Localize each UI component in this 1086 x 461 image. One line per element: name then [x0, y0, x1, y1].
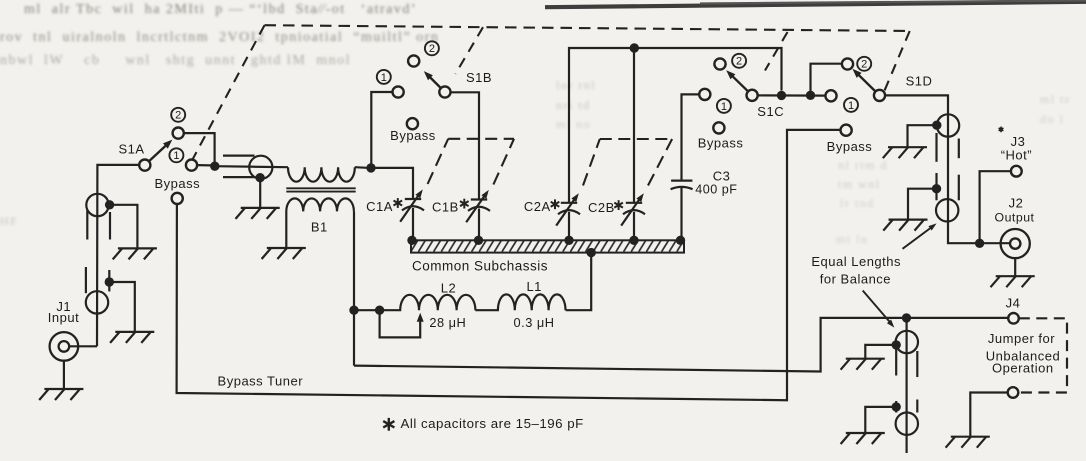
switch S1B pole — [439, 86, 450, 97]
terminal J4 — [1008, 313, 1019, 324]
asterisk at C2A — [551, 199, 560, 209]
switch S1B wiper arrow — [424, 71, 442, 88]
label Bypass (S1B) — [390, 128, 436, 143]
bypass contact of S1B — [407, 118, 418, 129]
pin label 2 (S1C) — [732, 54, 746, 68]
bypass contact of S1D — [841, 125, 852, 136]
pin label 2 (S1B) — [425, 41, 439, 55]
pin label 1 (S1C) — [717, 99, 731, 113]
variable capacitor C2B — [621, 193, 645, 225]
pin label 2 (S1D) — [857, 57, 871, 71]
wire J1 center to coax riser — [69, 345, 97, 347]
label S1C — [757, 104, 784, 119]
junction C3 at subchassis — [676, 236, 685, 245]
svg-text:C1B: C1B — [432, 199, 459, 214]
svg-text:Bypass: Bypass — [154, 176, 200, 191]
contact 2 of S1A — [173, 128, 184, 139]
junction S1D contact2 drop — [806, 91, 815, 100]
svg-text:B1: B1 — [311, 220, 328, 235]
switch S1A pole — [139, 160, 150, 171]
contact 2 of S1D — [842, 58, 853, 69]
label L2 28uH — [429, 280, 466, 330]
shaft link to S1D (dashed) — [884, 31, 910, 93]
label Equal Lengths for Balance — [811, 254, 901, 286]
winding legs of lower ring — [86, 267, 109, 293]
svg-text:2: 2 — [429, 43, 435, 55]
svg-text:Jumper for: Jumper for — [988, 331, 1055, 346]
ground balance lower — [841, 433, 885, 444]
contact 1 of S1A — [186, 160, 197, 171]
label C2A — [524, 199, 551, 214]
ground for upper shield tap — [113, 248, 157, 259]
svg-text:400 pF: 400 pF — [695, 183, 737, 197]
switch S1D pole — [874, 90, 885, 101]
shield junction (dot) balance upper — [892, 340, 901, 349]
contact 1 of S1C — [699, 89, 710, 100]
winding legs upper ring (output) — [937, 133, 959, 200]
label J3 Hot — [1001, 134, 1032, 163]
svg-text:2: 2 — [736, 56, 742, 68]
ground upper output shield — [883, 147, 927, 158]
wire J4 lower terminal to ground — [970, 393, 1007, 437]
wire shield to ground (balance upper) — [865, 345, 896, 359]
svg-text:1: 1 — [721, 101, 727, 113]
ground at bead shield — [236, 208, 280, 219]
svg-text:S1B: S1B — [466, 70, 492, 85]
balun transformer B1 primary winding — [288, 167, 355, 182]
gang linkage C1A-C1B (dashed) — [428, 139, 514, 185]
asterisk at C2B — [614, 200, 623, 210]
contact 2 of S1C — [714, 58, 725, 69]
wire shield to ground (upper output) — [908, 125, 937, 147]
ferrite core on input coax (lower ring) — [86, 291, 108, 313]
junction L2 tap — [375, 306, 384, 315]
shaft link to S1A (dashed) — [193, 25, 265, 159]
switch S1D wiper arrow — [852, 69, 876, 92]
wire J3 riser — [980, 171, 1011, 243]
shield junction (dot) lower — [932, 184, 941, 193]
svg-text:“Hot”: “Hot” — [1001, 148, 1032, 163]
pointer arrow to output balun — [903, 223, 937, 248]
svg-text:C1A: C1A — [366, 199, 393, 214]
switch S1A wiper arrow — [148, 140, 172, 162]
label Bypass (S1A) — [154, 176, 200, 191]
wire B1 primary to node A — [355, 166, 367, 169]
svg-text:Bypass: Bypass — [698, 136, 744, 151]
svg-text:C2B: C2B — [588, 200, 615, 215]
svg-text:2: 2 — [175, 110, 181, 122]
svg-text:Bypass Tuner: Bypass Tuner — [218, 373, 304, 388]
svg-text:S1A: S1A — [118, 142, 144, 157]
label Bypass (S1C) — [698, 136, 744, 151]
shield junction (dot) balance lower — [892, 402, 901, 411]
wire shield tap to ground (upper) — [110, 205, 138, 249]
label J1 Input — [48, 299, 79, 325]
label C1B — [432, 199, 459, 214]
svg-text:Operation: Operation — [992, 361, 1054, 376]
wire shield to ground (balance lower) — [865, 407, 896, 433]
note all capacitors value — [383, 416, 584, 431]
svg-text:2: 2 — [861, 59, 867, 71]
junction C2 bank at S1C-S1D wire — [777, 91, 786, 100]
wire coax riser J1 to S1A — [97, 165, 140, 346]
winding legs of upper ring — [87, 210, 110, 240]
ferrite core balance balun upper ring — [896, 331, 918, 353]
junction C1A at subchassis — [407, 236, 416, 245]
variable capacitor C1B — [466, 190, 490, 222]
ground balance upper — [841, 359, 885, 370]
wire C2B to subchassis — [633, 212, 635, 241]
svg-text:1: 1 — [848, 100, 854, 112]
variable capacitor C2A — [556, 193, 580, 225]
svg-text:28 μH: 28 μH — [429, 315, 466, 330]
contact 1 of S1B — [393, 86, 404, 97]
svg-text:Common Subchassis: Common Subchassis — [412, 258, 548, 273]
junction J3 riser at J2 wire — [975, 239, 984, 248]
label Bypass (S1D) — [827, 139, 873, 154]
ferrite bead on line to B1 — [249, 156, 272, 179]
capacitor C3 — [671, 181, 693, 190]
ferrite core on input coax (upper ring) — [86, 194, 108, 216]
junction C2A at subchassis — [564, 236, 573, 245]
label Jumper for Unbalanced Operation — [986, 331, 1060, 376]
terminal J4 lower — [1008, 387, 1019, 398]
pin label 2 (S1A) — [171, 108, 185, 122]
inductor L2 — [354, 295, 475, 310]
svg-text:C2A: C2A — [524, 199, 551, 214]
wire shield to ground (lower output) — [908, 189, 937, 220]
wire C1B to subchassis — [478, 209, 480, 241]
ground at J4 jumper — [946, 437, 990, 448]
asterisk at C1A — [394, 198, 403, 208]
svg-text:Output: Output — [995, 211, 1035, 225]
wire C2A to subchassis — [568, 212, 570, 241]
junction L1 at subchassis bottom — [587, 248, 596, 257]
junction C2B top — [630, 43, 639, 52]
label J2 Output — [995, 196, 1035, 225]
junction balanced balun at J4 wire — [902, 313, 911, 322]
ground lower output shield — [883, 220, 927, 231]
svg-text:C3: C3 — [713, 169, 731, 184]
svg-text:Equal Lengths: Equal Lengths — [811, 254, 901, 269]
shield tap junction (dot) at upper ring — [105, 200, 114, 209]
asterisk at C1B — [460, 199, 469, 209]
label L1 0.3uH — [514, 279, 555, 330]
shield tap junction (dot) at lower ring — [105, 277, 114, 286]
gang linkage C2A-C2B (dashed) — [583, 139, 672, 186]
contact 1 of S1D — [825, 90, 836, 101]
B1 core — [286, 188, 355, 191]
wire S1C contact 1 to C3 — [682, 94, 700, 180]
ferrite core output balun lower ring — [936, 199, 958, 221]
pin label 1 (S1B) — [377, 70, 391, 84]
svg-text:All capacitors are 15–196 pF: All capacitors are 15–196 pF — [401, 416, 584, 431]
svg-text:0.3 μH: 0.3 μH — [514, 315, 555, 330]
label J4 — [1006, 296, 1021, 311]
ferrite core output balun upper ring — [937, 114, 959, 136]
label C2B — [588, 200, 615, 215]
wire tops of C2A C2B to S1C node — [569, 48, 782, 203]
connector J1 (coax input jack) — [50, 332, 79, 361]
svg-text:Input: Input — [48, 310, 79, 325]
jumper J4 (dashed) — [1018, 318, 1067, 392]
junction C1B at subchassis — [474, 236, 483, 245]
wire bead shield to ground — [259, 178, 261, 208]
connector J2 (coax output jack) — [1001, 229, 1030, 258]
wire S1D pole to output balun and J2 — [885, 95, 1010, 243]
tap arrow into L2 — [380, 310, 424, 337]
switch S1C pole — [747, 90, 758, 101]
wire bypass tuner (S1A bypass to S1D bypass) — [177, 130, 841, 400]
junction S1A contacts node — [210, 162, 219, 171]
variable capacitor C1A — [400, 189, 424, 221]
svg-text:J2: J2 — [1009, 196, 1024, 211]
svg-text:1: 1 — [381, 72, 387, 84]
wire contact 2 of S1D down to node — [811, 64, 843, 92]
wire S1C pole to S1D contact 1 — [758, 94, 826, 96]
wire S1B contact 1 down to node A — [371, 92, 393, 168]
wire shield tap to ground (lower) — [109, 282, 135, 332]
wire through balance balun (vertical) — [905, 318, 907, 453]
ground at B1 secondary left — [262, 248, 306, 259]
label B1 — [311, 220, 328, 235]
shield junction (dot) at bead — [255, 173, 264, 182]
terminal J3 — [1011, 166, 1022, 177]
svg-text:Bypass: Bypass — [390, 128, 436, 143]
asterisk footnote at J3 — [999, 127, 1004, 133]
ground at J1 — [39, 361, 83, 400]
svg-text:L2: L2 — [441, 280, 456, 295]
wire node A to C1A — [371, 168, 413, 199]
shaft link to S1C (dashed) — [765, 32, 788, 71]
winding legs of bead — [223, 156, 255, 178]
switch S1C wiper arrow — [726, 70, 748, 92]
shaft link to S1B (dashed) — [455, 27, 483, 74]
pointer arrow to balance balun — [863, 291, 895, 328]
label C3 400 pF — [695, 169, 737, 197]
bypass contact of S1A — [172, 193, 183, 204]
winding legs balance balun — [896, 350, 917, 413]
label Common Subchassis — [412, 258, 548, 273]
svg-text:S1C: S1C — [757, 104, 784, 119]
rotary shaft linkage (dashed) — [265, 25, 910, 31]
label S1D — [906, 73, 933, 88]
gang dashed C1A extension — [428, 139, 449, 184]
pin label 1 (S1D) — [844, 98, 858, 112]
label C1A — [366, 199, 393, 214]
wire C1A to subchassis — [412, 208, 414, 240]
junction C2B at subchassis — [629, 236, 638, 245]
common subchassis bar — [411, 240, 684, 252]
bypass contact of S1C — [713, 122, 724, 133]
shield junction (dot) upper — [932, 121, 941, 130]
svg-text:L1: L1 — [526, 279, 541, 294]
svg-text:for Balance: for Balance — [820, 271, 891, 286]
wire S1A node to balun B1 — [215, 166, 288, 167]
wire contact 1 of S1A to node — [197, 164, 211, 166]
balun transformer B1 secondary winding — [286, 198, 354, 248]
label S1B — [466, 70, 492, 85]
svg-text:1: 1 — [173, 150, 179, 162]
pin label 1 (S1A) — [169, 148, 183, 162]
inductor L1 — [475, 294, 565, 310]
ground for lower shield tap — [110, 332, 154, 343]
wire S1B pole to capacitor C1B — [450, 92, 479, 199]
label S1A — [118, 142, 144, 157]
wire C3 to subchassis — [680, 188, 682, 240]
node A junction (B1 / S1B-1 / C1A) — [366, 163, 375, 172]
wire L1 to subchassis — [566, 253, 592, 311]
junction secondary/L2 wire — [349, 306, 358, 315]
label Bypass Tuner — [218, 373, 304, 388]
wire contact 2 of S1A to node — [183, 133, 214, 163]
wire L network to balanced output / J4 — [354, 318, 1008, 372]
svg-text:Bypass: Bypass — [827, 139, 873, 154]
ferrite core balance balun lower ring — [896, 413, 918, 435]
wire B1 secondary to L network — [353, 211, 355, 365]
ground at J2 — [991, 258, 1035, 287]
contact 2 of S1B — [408, 55, 419, 66]
svg-text:J4: J4 — [1006, 296, 1021, 311]
svg-text:S1D: S1D — [906, 73, 933, 88]
